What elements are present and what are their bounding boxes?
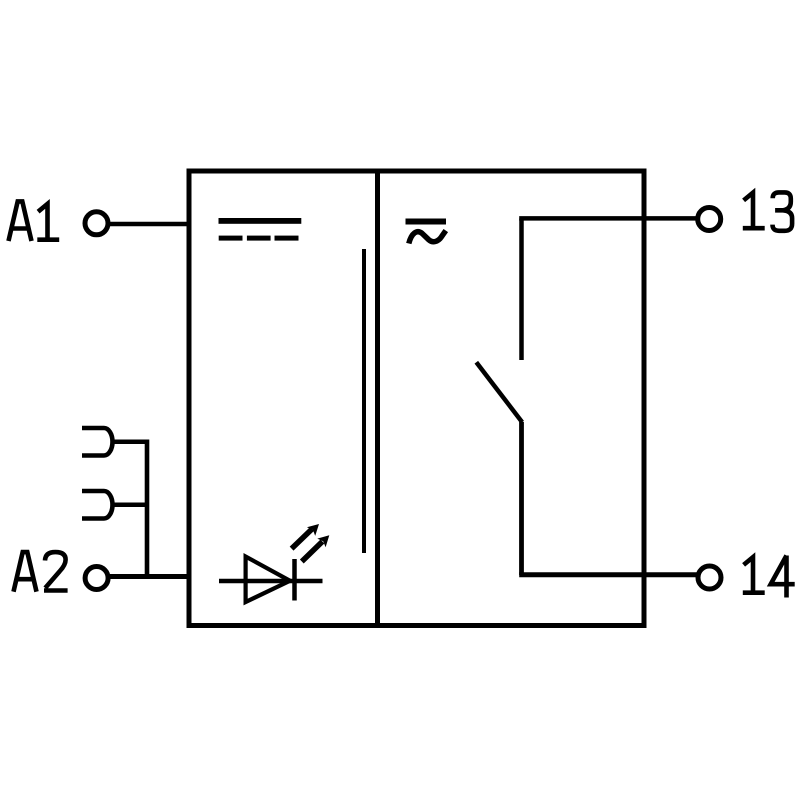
wire from contact 1 [112, 440, 148, 445]
LED triangle [246, 557, 290, 603]
component box outline [189, 171, 644, 626]
terminal 13 circle [698, 208, 721, 231]
wire to terminal 14 [519, 572, 697, 577]
isolation barrier line [362, 249, 366, 553]
DC symbol (dashed bar) [219, 236, 299, 241]
switch contact: upper fixed lead [519, 219, 524, 361]
wire A1 to box [110, 222, 189, 227]
LED cathode bar [292, 559, 297, 601]
switch lower lead [519, 422, 524, 575]
LED emission arrow 2 [302, 535, 330, 561]
AC symbol (bar over tilde) [406, 219, 447, 244]
LED diode D1: anode line [219, 579, 323, 584]
DC symbol (solid bar) [219, 218, 302, 224]
vertical bus wire joining contacts to A2 [145, 440, 150, 577]
label 14 [743, 556, 795, 598]
wire A2 to box [109, 574, 190, 579]
LED emission arrow 1 [292, 524, 319, 549]
label A2 [14, 552, 68, 592]
wire to terminal 13 [519, 216, 697, 221]
terminal 14 circle [698, 566, 721, 589]
plug contact 2 (female connector) [82, 491, 113, 519]
label 13 [743, 192, 792, 230]
plug contact 1 (female connector) [82, 428, 113, 456]
divider line between input and output sections [375, 169, 380, 628]
switch blade (open contact) [476, 362, 522, 422]
wire from contact 2 [112, 503, 148, 508]
label A1 [9, 201, 60, 241]
terminal A2 circle [85, 567, 108, 590]
terminal A1 circle [85, 212, 108, 235]
